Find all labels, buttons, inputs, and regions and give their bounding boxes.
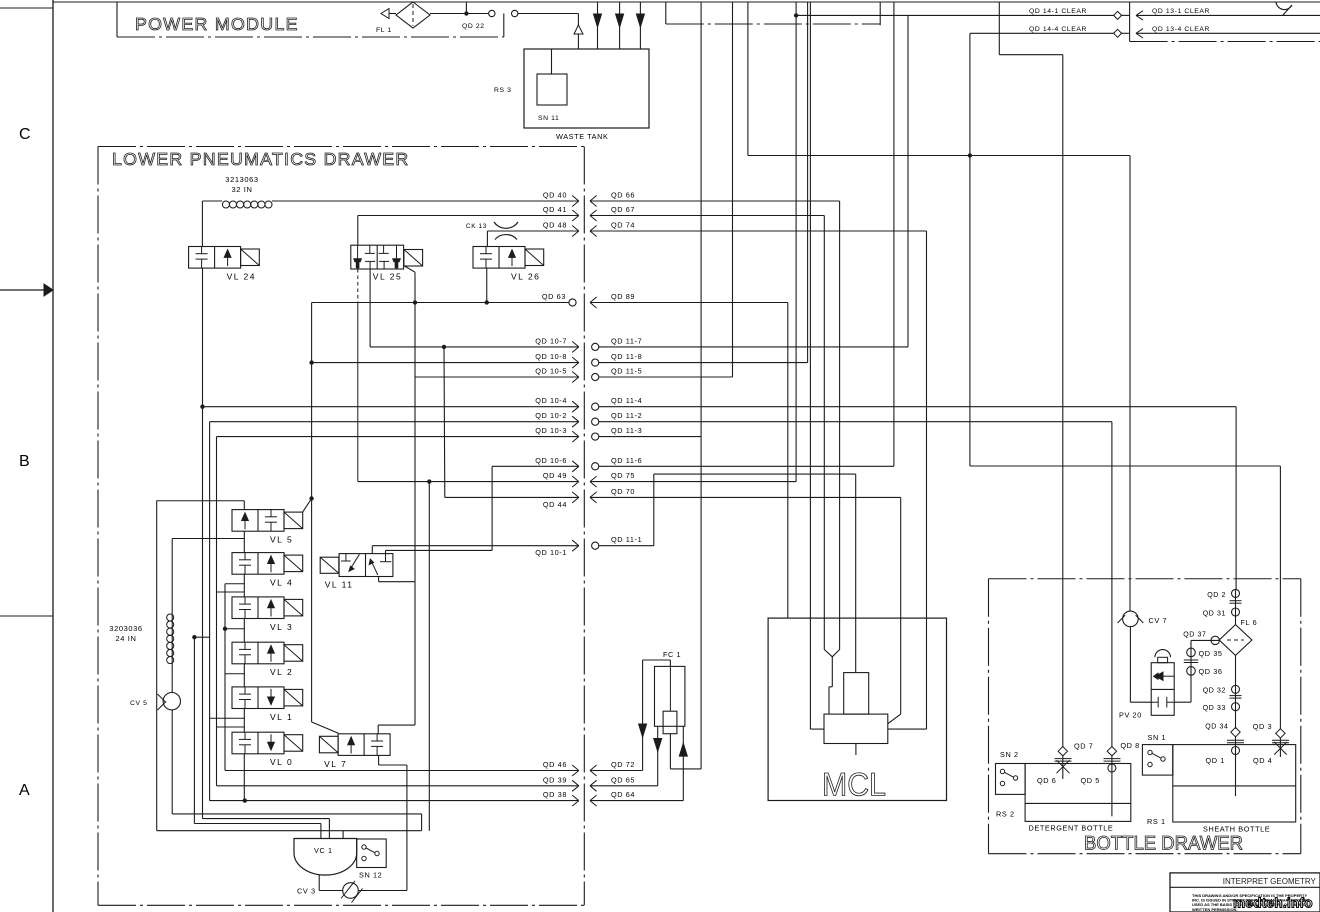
svg-text:VL 11: VL 11 <box>325 580 354 590</box>
valve chain verticals <box>243 501 245 510</box>
svg-text:VL 26: VL 26 <box>511 272 540 282</box>
node junction x=202.5 QD10-4 <box>200 405 204 409</box>
wire VL25 left port down (dashed pilot) <box>357 269 359 303</box>
waste tank inlet lines with arrows <box>597 2 599 49</box>
check valve CV 5 <box>163 693 180 710</box>
wire VL25 solenoid drop to x=415 <box>405 266 416 272</box>
svg-text:QD 11-2: QD 11-2 <box>611 411 642 420</box>
svg-text:QD 89: QD 89 <box>611 292 635 301</box>
wire QD 10-7 <box>370 346 579 348</box>
svg-text:SHEATH BOTTLE: SHEATH BOTTLE <box>1203 825 1270 834</box>
svg-text:A: A <box>19 782 30 799</box>
svg-text:QD 65: QD 65 <box>611 775 635 784</box>
QD10-3 riser to QD39 <box>216 437 218 786</box>
svg-text:QD 10-8: QD 10-8 <box>535 352 567 361</box>
svg-text:FL 1: FL 1 <box>376 27 392 34</box>
BOTTLE DRAWER boundary (dash-dot box) <box>989 578 1301 580</box>
wire QD 40 with inlet coil <box>202 200 222 202</box>
inner bus v194.4 <box>193 637 195 823</box>
wire VL26 top <box>486 231 488 247</box>
wire QD 14-4 row <box>970 32 1115 34</box>
svg-text:QD 34: QD 34 <box>1205 724 1228 731</box>
svg-text:DETERGENT BOTTLE: DETERGENT BOTTLE <box>1029 824 1114 833</box>
wire QD 11-8 <box>599 362 808 364</box>
svg-text:QD 13-4 CLEAR: QD 13-4 CLEAR <box>1152 26 1210 33</box>
svg-text:QD 2: QD 2 <box>1207 592 1226 599</box>
QD 3 connector <box>1276 729 1285 738</box>
wire VL25 top port <box>357 216 359 246</box>
zone tick B/C with arrow <box>0 289 44 291</box>
valve VL 5 <box>232 510 303 545</box>
valve VL 24 <box>189 247 260 282</box>
wire VL25 mid port to QD 10-7 <box>369 269 371 347</box>
valve VL 3 <box>232 597 303 632</box>
QD 35 connector <box>1187 648 1196 657</box>
wire QD 72 to FC1 <box>590 770 643 772</box>
connector row QD 49 / QD 75 <box>543 471 635 487</box>
svg-text:QD 63: QD 63 <box>542 292 566 301</box>
wire branch 796 to 908 <box>796 14 908 16</box>
sensor SN 2 box <box>996 764 1026 795</box>
coil 3203036 loops <box>167 614 174 664</box>
wire QD 10-1 into VL11 <box>371 546 373 554</box>
wire QD 11-3 <box>599 436 701 438</box>
svg-text:QD 40: QD 40 <box>543 191 567 200</box>
node junction x=444 <box>442 345 446 349</box>
svg-text:VL 4: VL 4 <box>270 578 293 588</box>
svg-text:QD 35: QD 35 <box>1199 649 1223 658</box>
svg-text:VL 1: VL 1 <box>270 712 293 722</box>
MCL body box <box>824 714 888 743</box>
svg-text:FC 1: FC 1 <box>663 650 681 659</box>
svg-text:QD 74: QD 74 <box>611 221 635 230</box>
node junction on x=970 <box>968 153 972 157</box>
wire QD 11-7 <box>599 346 908 348</box>
connector row QD 10-1 / QD 11-1 <box>535 535 642 557</box>
svg-text:MCL: MCL <box>822 767 886 803</box>
wire QD 14-1 row <box>908 14 1115 16</box>
svg-text:QD 33: QD 33 <box>1203 705 1226 712</box>
flow arrow on QD72 riser <box>639 724 647 737</box>
svg-text:QD 14-4 CLEAR: QD 14-4 CLEAR <box>1029 26 1087 33</box>
wire QD 41 <box>358 215 579 217</box>
valve VL 7 <box>319 734 390 769</box>
connector row QD 63 / QD 89 <box>542 292 635 308</box>
svg-text:RS 3: RS 3 <box>494 87 512 94</box>
svg-text:QD 64: QD 64 <box>611 790 635 799</box>
wire vertical x=807.6 (to QD 11-8) <box>807 2 809 363</box>
svg-text:SN 1: SN 1 <box>1148 733 1167 742</box>
vacuum chamber VC 1 <box>294 839 357 876</box>
QD 37 connector <box>1211 636 1219 644</box>
svg-text:QD 32: QD 32 <box>1203 688 1226 695</box>
svg-text:QD 49: QD 49 <box>543 471 567 480</box>
wire QD 11-1 riser <box>599 545 654 547</box>
svg-text:VL 25: VL 25 <box>373 272 402 282</box>
valve VL 2 <box>232 642 303 677</box>
QD 1 connector into sheath bottle <box>1235 737 1237 796</box>
manifold frame box <box>156 501 158 831</box>
sensor SN 1 box <box>1142 745 1172 776</box>
SHEATH BOTTLE box <box>1173 745 1296 822</box>
svg-text:QD 10-6: QD 10-6 <box>535 456 567 465</box>
svg-text:VL 0: VL 0 <box>270 757 293 767</box>
valve VL 0 <box>232 732 303 767</box>
wire x=415 to VL7 top <box>378 724 415 726</box>
connector row QD 10-5 / QD 11-5 <box>535 367 642 383</box>
connector row QD 10-2 / QD 11-2 <box>535 411 642 427</box>
MCL funnel <box>823 618 825 649</box>
svg-text:QD 14-1 CLEAR: QD 14-1 CLEAR <box>1029 8 1087 15</box>
QD 13 module bottom dash-dot <box>1130 41 1320 43</box>
node junction x=311.6 QD10-8 <box>309 360 313 364</box>
svg-text:QD 3: QD 3 <box>1253 722 1272 731</box>
flow arrow on QD65 riser <box>654 739 662 752</box>
wire x=701 to FC1 <box>670 768 701 770</box>
svg-text:VL 3: VL 3 <box>270 622 293 632</box>
open arrow into tank <box>574 25 583 34</box>
wire into body left <box>810 728 824 730</box>
svg-text:QD 10-1: QD 10-1 <box>535 548 567 557</box>
wire vertical x=880 (module edge stub) <box>879 2 881 25</box>
wire QD 10-8 <box>312 362 579 364</box>
connector row QD 38 / QD 64 <box>543 790 635 806</box>
svg-text:QD 11-3: QD 11-3 <box>611 426 642 435</box>
wire QD 49 <box>358 481 579 483</box>
svg-text:QD 67: QD 67 <box>611 205 635 214</box>
svg-text:RS 1: RS 1 <box>1147 817 1166 826</box>
wire QD 11-5 <box>599 376 733 378</box>
svg-text:QD 41: QD 41 <box>543 205 567 214</box>
svg-text:BOTTLE DRAWER: BOTTLE DRAWER <box>1084 834 1243 855</box>
wire vertical x=747.9 with jog to bottle drawer <box>747 2 749 156</box>
svg-text:QD 7: QD 7 <box>1074 742 1093 751</box>
wire QD 10-6 link down to VL11 right port <box>491 466 493 550</box>
filter FL 1 <box>396 2 430 28</box>
svg-text:VL 5: VL 5 <box>270 535 293 545</box>
svg-text:CV 5: CV 5 <box>130 700 148 707</box>
wire VL26 bottom <box>486 268 488 302</box>
connector row QD 41 / QD 67 <box>543 205 635 221</box>
svg-text:QD 36: QD 36 <box>1199 667 1223 676</box>
svg-text:32 IN: 32 IN <box>232 185 253 194</box>
arrow QD 13-1 <box>1136 11 1143 20</box>
svg-text:CK 13: CK 13 <box>466 223 487 230</box>
svg-text:QD 11-7: QD 11-7 <box>611 336 642 345</box>
interface dash-dot vertical <box>583 147 585 906</box>
node junction x=429 QD49 <box>427 479 431 483</box>
connector row QD 10-7 / QD 11-7 <box>535 336 642 352</box>
connector row QD 10-4 / QD 11-4 <box>535 396 642 412</box>
corner arc symbol top right <box>1276 2 1292 15</box>
node VL25 pilot junction on QD63 <box>413 300 417 304</box>
wire vertical x=970 (QD 14-4 down) <box>969 33 971 466</box>
wire QD49 riser x=429 down <box>428 482 430 831</box>
slant wire to VL7 solenoid <box>312 722 339 733</box>
svg-text:QD 11-4: QD 11-4 <box>611 396 642 405</box>
sensor SN 12 box <box>357 839 387 868</box>
wire QD 44 <box>445 496 579 498</box>
QD 32/33 chain below FL6 <box>1235 655 1237 728</box>
VL0 top feed from QD10-3 riser <box>217 726 245 728</box>
wire vertical x=894 (to QD 11-6) <box>893 2 895 466</box>
QD 36 connector <box>1187 667 1196 676</box>
QD 2 / QD 31 chain above FL6 <box>1235 590 1237 625</box>
svg-text:QD 11-6: QD 11-6 <box>611 456 642 465</box>
svg-text:24 IN: 24 IN <box>116 634 137 643</box>
quick disconnect QD 22 <box>489 10 495 16</box>
wire vertical x=796 (to QD 75) <box>795 2 797 482</box>
sensor SN 11 box <box>537 74 567 105</box>
wire QD 39 <box>217 785 579 787</box>
svg-text:QD 44: QD 44 <box>543 500 567 509</box>
QD10-2 riser to QD38 <box>209 422 211 801</box>
QD 13 module left border <box>1129 2 1131 42</box>
wire FL1 to waste tank <box>430 13 489 15</box>
check valve CV 3 <box>318 875 320 891</box>
svg-text:QD 10-5: QD 10-5 <box>535 367 567 376</box>
svg-text:VL 24: VL 24 <box>227 272 256 282</box>
svg-text:CV 7: CV 7 <box>1149 616 1168 625</box>
svg-text:QD 11-5: QD 11-5 <box>611 367 642 376</box>
wire QD 70 to MCL <box>590 496 901 498</box>
wire QD 11-6 <box>599 465 894 467</box>
connector row QD 44 / QD 70 <box>543 487 635 509</box>
wire QD 66 to MCL funnel <box>590 200 840 202</box>
DETERGENT BOTTLE box <box>1025 764 1131 822</box>
connector diamond QD 14-4 <box>1114 29 1122 37</box>
node junction VL0 drain <box>243 798 247 802</box>
svg-text:QD 13-1 CLEAR: QD 13-1 CLEAR <box>1152 8 1210 15</box>
node VL26 drain junction <box>485 300 489 304</box>
svg-text:QD 1: QD 1 <box>1206 756 1225 765</box>
svg-text:WASTE TANK: WASTE TANK <box>556 132 609 141</box>
svg-text:QD 10-2: QD 10-2 <box>535 411 567 420</box>
pressure valve PV 20 <box>1151 663 1174 716</box>
connector row QD 39 / QD 65 <box>543 775 635 791</box>
wire QD 65 to FC1 <box>590 785 658 787</box>
arrow QD 13-4 <box>1136 29 1143 38</box>
QD 8 connector <box>1107 747 1116 756</box>
zone tick A/B <box>0 615 53 617</box>
svg-text:QD 37: QD 37 <box>1183 632 1206 639</box>
svg-text:QD 70: QD 70 <box>611 487 635 496</box>
svg-text:VC 1: VC 1 <box>314 846 333 855</box>
PV20 cap dome <box>1158 657 1168 662</box>
valve VL 26 <box>473 247 544 282</box>
valve VL 1 <box>232 687 303 722</box>
QD 6 shut valve X <box>1062 756 1064 779</box>
valve VL 11 <box>320 554 393 590</box>
connector row QD 10-8 / QD 11-8 <box>535 352 642 368</box>
wire vertical x=701 (to QD 11-3 / FC1) <box>700 2 702 769</box>
svg-text:QD 6: QD 6 <box>1037 776 1056 785</box>
svg-text:QD 48: QD 48 <box>543 221 567 230</box>
node junction at x=466 <box>464 11 468 15</box>
wire QD 10-3 <box>217 436 579 438</box>
body bottom stub <box>855 744 857 756</box>
wire QD63 riser to VL7 solenoid <box>311 303 313 723</box>
wire vertical x=999 with jog to QD 7 riser <box>998 2 1000 55</box>
svg-text:POWER MODULE: POWER MODULE <box>135 14 299 34</box>
svg-text:QD 8: QD 8 <box>1120 741 1139 750</box>
zone tick top <box>0 7 53 9</box>
svg-text:QD 75: QD 75 <box>611 471 635 480</box>
svg-text:3213063: 3213063 <box>225 175 258 184</box>
wire QD 74 to MCL right <box>590 230 927 232</box>
svg-text:FL 6: FL 6 <box>1241 618 1258 627</box>
wire QD 64 to FC1 <box>590 800 683 802</box>
wire CV7 down to PV20 <box>1129 627 1131 703</box>
wire into body right <box>927 728 947 730</box>
VL7 bottom wire to CV3 riser <box>378 755 380 765</box>
VL24 drop jog to VC1 <box>203 818 330 820</box>
QD 7 connector <box>1058 747 1067 756</box>
coil 3203036 line (CV5) <box>171 539 173 693</box>
wire QD 11-4 to bottle drawer <box>599 406 1236 408</box>
sheet left border line <box>52 0 54 912</box>
connector row QD 10-6 / QD 11-6 <box>535 456 642 472</box>
wire x=444 riser <box>443 347 446 498</box>
VL11 bottom stub to x=415 <box>378 577 380 582</box>
svg-text:QD 46: QD 46 <box>543 760 567 769</box>
svg-text:QD 10-3: QD 10-3 <box>535 426 567 435</box>
wire vertical x=1130 (to CV 7) <box>1129 156 1131 612</box>
wire QD 11-2 to bottle drawer <box>599 421 1112 423</box>
svg-text:CV 3: CV 3 <box>297 887 316 896</box>
VL1 bottom tee to QD38 riser <box>210 717 245 719</box>
POWER MODULE boundary box (dash-dot) <box>116 2 118 37</box>
svg-text:VL 2: VL 2 <box>270 667 293 677</box>
svg-text:medteh.info: medteh.info <box>1233 896 1313 911</box>
wire QD 67 to MCL funnel <box>590 215 824 217</box>
inner bus v225 (valve staircase) <box>224 584 226 771</box>
wire QD 46 <box>225 770 579 772</box>
svg-text:QD 38: QD 38 <box>543 790 567 799</box>
connector row QD 10-3 / QD 11-3 <box>535 426 642 442</box>
valve VL 4 <box>232 553 303 588</box>
svg-text:B: B <box>19 453 30 470</box>
MCL plunger small box <box>844 673 869 715</box>
wire QD 10-6 <box>492 465 579 467</box>
wire QD 38 <box>210 800 579 802</box>
wire VL24 bottom long drop <box>202 268 204 819</box>
wire QD 10-4 <box>203 406 579 408</box>
LOWER PNEUMATICS DRAWER boundary (dash-dot box) <box>98 146 584 148</box>
svg-text:QD 4: QD 4 <box>1253 756 1272 765</box>
flow arrow on QD64 riser <box>679 743 687 756</box>
FL 1 inlet arrow <box>381 9 389 19</box>
filter FL 6 <box>1219 625 1252 656</box>
svg-text:LOWER PNEUMATICS DRAWER: LOWER PNEUMATICS DRAWER <box>112 149 409 169</box>
svg-text:SN 12: SN 12 <box>359 871 382 880</box>
svg-text:QD 39: QD 39 <box>543 775 567 784</box>
svg-text:SN 2: SN 2 <box>1000 750 1019 759</box>
svg-text:SN 11: SN 11 <box>538 115 559 122</box>
VC1 stub wires <box>320 824 322 839</box>
wire x=492 top segment <box>491 549 493 551</box>
svg-text:QD 11-8: QD 11-8 <box>611 352 642 361</box>
svg-text:QD 31: QD 31 <box>1203 611 1226 618</box>
sheet top border line <box>53 1 1320 3</box>
valve VL 25 (double) <box>351 245 423 282</box>
node junction x=796 y=14 <box>794 13 798 17</box>
wire QD 48 <box>487 230 578 232</box>
svg-text:QD 22: QD 22 <box>462 23 485 30</box>
coil 3213063 loops <box>222 201 272 208</box>
wire VL24 top <box>201 201 203 247</box>
check valve CV 7 <box>1123 611 1139 627</box>
svg-text:3203036: 3203036 <box>109 624 142 633</box>
wire QD 10-5 <box>415 376 579 378</box>
MCL box <box>768 618 946 800</box>
wire to QD 37 <box>1191 639 1219 641</box>
diagonal wire into body top right <box>888 714 901 724</box>
svg-text:QD 5: QD 5 <box>1081 776 1100 785</box>
connector row QD 48 / QD 74 <box>543 221 635 237</box>
waste tank box <box>524 49 649 128</box>
svg-text:INTERPRET GEOMETRY: INTERPRET GEOMETRY <box>1223 876 1316 886</box>
VL3 top feed from QD10-3 riser <box>217 591 245 593</box>
svg-text:QD 72: QD 72 <box>611 760 635 769</box>
svg-text:QD 10-7: QD 10-7 <box>535 336 567 345</box>
upper module boundary fragment <box>665 2 667 24</box>
wire QD 10-2 <box>210 421 579 423</box>
svg-text:WRITTEN PERMISSION.: WRITTEN PERMISSION. <box>1192 907 1238 912</box>
svg-text:VL 7: VL 7 <box>324 759 347 769</box>
node VL5 solenoid junction <box>309 496 313 500</box>
check valve CK 13 arcs <box>494 222 518 228</box>
svg-text:QD 10-4: QD 10-4 <box>535 396 567 405</box>
svg-text:QD 66: QD 66 <box>611 191 635 200</box>
svg-text:QD 11-1: QD 11-1 <box>611 535 642 544</box>
QD 34 connector <box>1231 727 1240 736</box>
wire PV20 right to QD35/36 chain <box>1174 701 1191 703</box>
wire QD 10-1 <box>372 545 578 547</box>
QD 4 shut valve X <box>1279 738 1281 757</box>
title block <box>1170 873 1320 912</box>
wire QD 75 <box>590 481 796 483</box>
wire QD 63 <box>312 302 569 304</box>
wire QD 89 to MCL top <box>590 302 788 304</box>
wire stub up from junction <box>465 2 467 14</box>
connector row QD 40 / QD 66 <box>543 191 635 207</box>
svg-text:PV 20: PV 20 <box>1119 711 1142 720</box>
wire vertical x=908 (QD 14-1 to QD 11-7) <box>907 15 909 347</box>
svg-text:RS 2: RS 2 <box>996 810 1015 819</box>
QD 5 connector <box>1111 756 1113 816</box>
wire vertical x=732.5 (to QD 11-5) <box>732 2 734 377</box>
svg-text:C: C <box>19 126 31 143</box>
connector diamond QD 14-1 <box>1114 11 1122 19</box>
FC1 internal riser <box>669 666 671 711</box>
wire vertical x=810.4 (to MCL) <box>809 2 811 729</box>
connector row QD 46 / QD 72 <box>543 760 635 776</box>
VL5 solenoid slant wire <box>303 499 312 513</box>
wire x=970 jog right to QD 3 riser <box>970 465 1281 467</box>
